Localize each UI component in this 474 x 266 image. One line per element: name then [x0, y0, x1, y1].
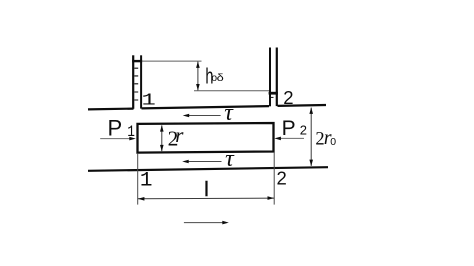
- pipe bottom wall: [88, 167, 328, 171]
- section 1 extension line: [137, 153, 139, 204]
- pipe top wall left segment: [88, 107, 134, 110]
- pipe top wall right segment: [278, 104, 327, 107]
- piezometer 2 small tick: [269, 96, 274, 98]
- svg-text:τ: τ: [224, 100, 234, 126]
- h dimension upper arrowhead: [196, 61, 200, 68]
- flow direction arrowhead: [222, 221, 229, 225]
- section 2 extension line: [273, 152, 275, 204]
- h dimension bottom reference line: [194, 90, 269, 92]
- 2r0 dimension upper arrowhead: [309, 107, 313, 114]
- svg-text:τ: τ: [225, 146, 235, 172]
- svg-text:1: 1: [142, 91, 156, 110]
- pressure P1 arrow shaft: [100, 138, 130, 140]
- h dimension top reference line: [142, 60, 201, 62]
- svg-text:2: 2: [300, 122, 307, 137]
- pipe top wall middle segment: [142, 106, 270, 108]
- svg-text:2: 2: [283, 87, 293, 108]
- svg-text:δ: δ: [217, 72, 225, 84]
- piezometer 2 left line: [269, 48, 271, 107]
- svg-text:1: 1: [140, 170, 153, 192]
- 2r0 dimension lower arrowhead: [309, 160, 313, 167]
- piezometer 1 left line: [132, 55, 134, 109]
- lower tau arrow shaft: [188, 161, 222, 163]
- svg-text:P: P: [282, 117, 296, 140]
- piezometer 1 scale ticks: [134, 68, 138, 100]
- 2r dimension upper arrowhead: [160, 125, 164, 132]
- svg-text:0: 0: [330, 136, 336, 148]
- svg-text:P: P: [108, 116, 123, 141]
- pressure P1 arrowhead: [129, 137, 136, 141]
- length l dimension line: [138, 197, 275, 200]
- flow direction arrow shaft: [184, 222, 223, 224]
- fluid cylinder rectangle: [138, 123, 274, 153]
- piezometer 2 liquid level: [269, 92, 278, 95]
- h dimension line: [197, 62, 199, 91]
- svg-text:r: r: [175, 123, 184, 147]
- pressure P2 arrow shaft: [280, 137, 305, 139]
- length l left arrowhead: [138, 197, 145, 201]
- 2r0 dimension line: [310, 108, 312, 166]
- length l right arrowhead: [268, 196, 275, 200]
- piezometer 1 liquid level: [132, 60, 142, 62]
- lower tau arrowhead: [182, 160, 189, 164]
- piezometer 1 right line: [140, 55, 142, 108]
- svg-text:2: 2: [277, 167, 287, 188]
- svg-text:l: l: [204, 179, 208, 201]
- h dimension lower arrowhead: [196, 84, 200, 91]
- upper tau arrow shaft: [188, 115, 221, 117]
- svg-text:1: 1: [127, 124, 135, 142]
- 2r dimension line: [161, 125, 163, 151]
- piezometer 2 right line: [276, 48, 278, 107]
- upper tau arrowhead: [183, 114, 190, 118]
- 2r dimension lower arrowhead: [160, 145, 164, 152]
- pressure P2 arrowhead: [274, 137, 281, 141]
